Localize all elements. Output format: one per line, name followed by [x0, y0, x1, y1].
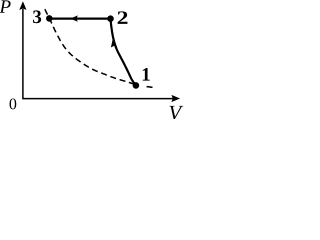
- arrowhead on 1->2 curve pointing up along curve: [111, 37, 117, 48]
- state point 3: [46, 15, 53, 22]
- state point 2: [107, 15, 114, 22]
- label P: [0, 0, 11, 12]
- V axis arrowhead: [171, 95, 180, 102]
- label V: [170, 106, 184, 120]
- label 0: [10, 99, 17, 110]
- V axis (horizontal): [22, 98, 173, 100]
- label 3: [33, 10, 41, 23]
- arrowhead on 2->3 line pointing left: [70, 15, 78, 21]
- dashed isotherm curve through points 3 and 1: [45, 9, 153, 87]
- process curve 1->2 (thick): [111, 19, 136, 86]
- label 1: [143, 68, 150, 81]
- state point 1: [133, 82, 140, 89]
- label 2: [118, 11, 128, 24]
- P axis arrowhead: [19, 1, 26, 10]
- process line 2->3 (horizontal, thick): [49, 18, 110, 20]
- P axis (vertical): [22, 9, 24, 99]
